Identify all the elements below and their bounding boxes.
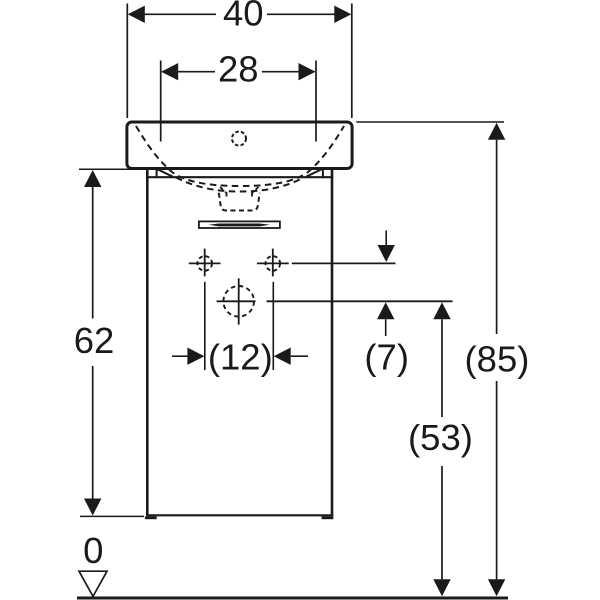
bowl outer dashed curve: [136, 126, 344, 186]
dimension (12) arrow right: [274, 348, 291, 365]
svg-text:(85): (85): [465, 338, 530, 379]
handle bar: [209, 224, 271, 227]
reference line holes: [257, 262, 396, 264]
svg-text:40: 40: [223, 0, 264, 34]
dimension 28 line: [162, 71, 315, 73]
cabinet side inner vertical left: [156, 169, 158, 178]
dimension (85) arrow top: [488, 123, 505, 140]
dimension 40 arrow right: [334, 6, 351, 23]
dimension 28 extension lines: [161, 61, 316, 142]
dimension 40 extension lines: [127, 4, 351, 119]
big hole vertical crosshair: [238, 278, 240, 324]
ground line: [77, 597, 508, 600]
extension line left hole down: [204, 282, 206, 370]
reference line top 85: [356, 121, 504, 123]
dimension (85) arrow bottom: [488, 579, 505, 596]
hole right crosshair: [272, 249, 274, 277]
handle outline: [199, 221, 280, 228]
svg-text:62: 62: [74, 320, 115, 361]
svg-text:28: 28: [218, 49, 259, 90]
hole left crosshair: [189, 249, 221, 277]
bowl inner dashed curve: [176, 178, 304, 192]
dimension 62 tick bottom: [80, 515, 144, 517]
svg-text:(12): (12): [208, 336, 273, 377]
dimension 62 line: [92, 187, 94, 499]
cabinet right side: [331, 169, 334, 516]
extension line right hole down: [272, 282, 274, 370]
dimension 62 arrow top: [84, 170, 101, 187]
bowl edge visible in gap right: [306, 169, 322, 177]
dimension 62 arrow bottom: [84, 499, 101, 516]
cabinet top: [146, 176, 333, 178]
hole right circle: [266, 256, 281, 271]
bowl edge visible in gap left: [157, 169, 173, 177]
dimension (12) arrow left: [172, 355, 188, 357]
dimension 62 tick top: [79, 168, 152, 170]
drain trap: [219, 193, 260, 211]
hole left circle: [197, 256, 212, 271]
dimension 28 arrow right: [299, 63, 316, 80]
dimension (7) arrow up: [377, 302, 394, 319]
reference line big hole: [217, 300, 453, 302]
dimension 40 arrow left: [128, 6, 145, 23]
dimension (7) arrow down: [385, 231, 387, 247]
cabinet bottom: [146, 514, 333, 516]
datum triangle: [79, 571, 107, 596]
dimension 40 line: [129, 13, 350, 15]
big hole circle: [223, 286, 254, 317]
tap hole: [232, 132, 246, 146]
dimension (53) arrow bottom: [433, 579, 450, 596]
dimension (53) line: [441, 319, 443, 579]
washbasin: [127, 122, 352, 169]
dimension (85) line: [496, 140, 498, 580]
svg-text:(53): (53): [408, 417, 473, 458]
svg-text:(7): (7): [364, 336, 409, 377]
cabinet foot right: [322, 516, 334, 519]
cabinet side inner vertical right: [322, 169, 324, 178]
dimension (53) arrow top: [433, 302, 450, 319]
svg-text:0: 0: [83, 530, 103, 571]
cabinet foot left: [145, 516, 157, 519]
cabinet left side: [146, 169, 149, 516]
dimension 28 arrow left: [161, 63, 178, 80]
